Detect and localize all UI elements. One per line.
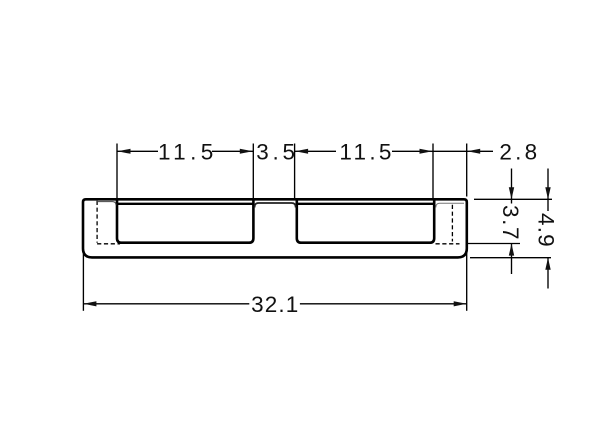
arrow left at 117: [118, 149, 131, 154]
dim 3.7 bottom arrow (up): [509, 244, 514, 256]
dim 4.9 bottom arrow (up): [545, 258, 550, 270]
left hidden line vertical (dashed): [96, 201, 98, 243]
arrow right at 253.3: [240, 149, 253, 154]
svg-text:11.5: 11.5: [158, 140, 213, 165]
extension line at x=253.3 (pocket L right): [252, 144, 254, 199]
svg-text:4.9: 4.9: [534, 213, 559, 247]
svg-text:2.8: 2.8: [499, 140, 537, 165]
dim 3.7 top arrow (down): [509, 187, 514, 199]
outer profile of part: [83, 199, 467, 257]
dim 3.7 line stub below top edge: [511, 199, 513, 203]
dim 4.9 line segment below top edge: [547, 199, 549, 211]
dim 3.7 top arrow tail: [511, 169, 513, 200]
extension line horizontal top edge (for 3.7/4.9): [474, 198, 552, 200]
dimension line 32.1 segment b: [300, 303, 467, 305]
dimension line 11.5 right segment b: [392, 150, 433, 152]
extension line at x=466.7 top (part right edge): [466, 144, 468, 197]
arrow pointing left at 466.7: [467, 149, 480, 154]
arrow tail right of 466.7: [467, 150, 493, 152]
dimension line 11.5 left segment a: [117, 150, 158, 152]
dim 3.7 bottom arrow tail: [511, 244, 513, 274]
left hidden-cavity ceiling edge (thin): [98, 202, 116, 206]
arrow left at 83.4: [83, 301, 96, 306]
extension line at x=466.7 bottom (part right edge): [466, 245, 468, 311]
extension line at x=117 (pocket L left): [116, 144, 118, 199]
right pocket walls and bottom: [297, 199, 434, 242]
svg-text:11.5: 11.5: [339, 140, 391, 165]
left pocket top edge: [117, 203, 253, 205]
extension line at x=83.4 bottom (part left edge): [82, 254, 84, 311]
arrow right at 433: [420, 149, 433, 154]
extension line at x=294.6 (pocket R left): [294, 144, 296, 199]
svg-text:32.1: 32.1: [251, 292, 298, 317]
dimension line 2.8: [433, 150, 467, 152]
extension line at x=433 (pocket R right): [432, 144, 434, 199]
extension line horizontal cavity bottom (for 3.7): [468, 243, 520, 245]
dim 4.9 bottom arrow tail: [547, 258, 549, 289]
extension line horizontal part bottom (for 4.9): [470, 257, 551, 259]
left pocket walls and bottom: [117, 199, 253, 242]
dimension line 11.5 left segment b: [212, 150, 253, 152]
dimension line 11.5 right segment a: [295, 150, 336, 152]
dim 4.9 top arrow (down): [545, 187, 550, 199]
svg-text:3.7: 3.7: [498, 205, 523, 240]
right ceiling edge line (thin): [436, 203, 464, 207]
left hidden line horizontal (dashed): [97, 243, 120, 245]
dim 4.9 top arrow tail: [547, 169, 549, 200]
svg-text:3.5: 3.5: [256, 140, 295, 165]
right hidden line horizontal (dashed): [436, 243, 460, 245]
right hidden line vertical (dashed): [451, 205, 453, 242]
dimension line 32.1 segment a: [83, 303, 249, 305]
right pocket top edge: [297, 203, 434, 205]
rib top edge line between pockets: [255, 203, 296, 208]
arrow left at 294.6: [295, 149, 308, 154]
arrow right at 466.7: [454, 301, 467, 306]
